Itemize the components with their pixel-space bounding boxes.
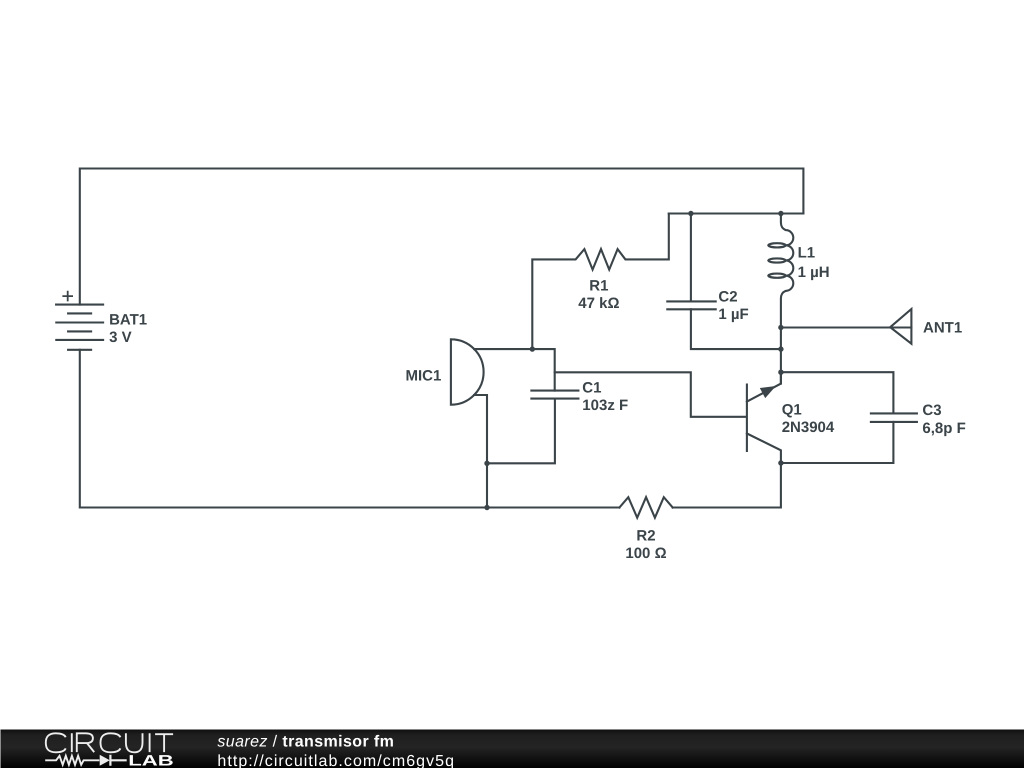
wire bottom rail right of R2 up to collector node (673, 463, 781, 508)
wire top rail from battery + to upper right corner (80, 169, 804, 305)
wire horizontal net at y213 (R1/C2/L1 top node) (669, 212, 804, 214)
svg-text:C2: C2 (718, 289, 737, 306)
resistor R1 (532, 214, 669, 350)
svg-text:2N3904: 2N3904 (782, 419, 835, 436)
node collector / C3 bottom (778, 460, 783, 465)
svg-text:C1: C1 (582, 380, 601, 397)
svg-text:LAB: LAB (128, 753, 174, 768)
svg-text:C3: C3 (922, 402, 941, 419)
node C2 top (688, 211, 693, 216)
node mic bottom / C1 (484, 461, 489, 466)
svg-text:100 Ω: 100 Ω (625, 545, 666, 562)
svg-text:http://circuitlab.com/cm6gv5q: http://circuitlab.com/cm6gv5q (217, 753, 455, 768)
node bottom rail junction (484, 505, 489, 510)
inductor L1 (768, 214, 793, 328)
node C2 bottom (778, 346, 783, 351)
svg-text:ANT1: ANT1 (923, 320, 962, 337)
svg-text:1 µH: 1 µH (798, 264, 830, 281)
svg-text:BAT1: BAT1 (109, 311, 147, 328)
label BAT1 value (109, 311, 147, 346)
footer author / title (217, 734, 394, 751)
svg-text:R1: R1 (589, 278, 608, 295)
svg-text:103z F: 103z F (582, 397, 628, 414)
logo LAB text (128, 753, 174, 768)
label C3 value (922, 402, 965, 437)
label R1 value (578, 278, 619, 312)
label MIC1 (405, 368, 441, 385)
label R2 value (625, 528, 666, 562)
svg-text:MIC1: MIC1 (405, 368, 441, 385)
footer url (217, 753, 455, 768)
node antenna tap (778, 325, 783, 330)
logo resistor-diode squiggle (45, 755, 127, 766)
svg-text:1 µF: 1 µF (718, 306, 748, 323)
wire antenna feed (781, 326, 912, 328)
node mic top / R1 (530, 346, 535, 351)
capacitor C3 (781, 372, 917, 463)
wire L1 bottom through ANT/C2/emitter nodes (780, 328, 782, 384)
node emitter / C3 top (778, 370, 783, 375)
wire mic node down to bottom rail (486, 463, 488, 507)
capacitor C2 (667, 214, 781, 350)
capacitor C1 (487, 391, 578, 464)
wire base net from C1 to Q1 (555, 372, 746, 417)
node L1 top (778, 211, 783, 216)
label C2 value (718, 289, 748, 323)
label L1 value (798, 245, 830, 282)
resistor R2 (619, 497, 672, 518)
microphone MIC1 (451, 339, 555, 463)
svg-text:Q1: Q1 (782, 402, 802, 419)
label C1 value (582, 380, 628, 414)
svg-text:L1: L1 (798, 245, 816, 262)
svg-text:6,8p F: 6,8p F (922, 420, 965, 437)
svg-text:suarez / transmisor fm: suarez / transmisor fm (217, 734, 394, 751)
battery BAT1 (56, 291, 103, 350)
logo CIRCUIT wordmark (46, 733, 173, 752)
svg-text:3 V: 3 V (109, 329, 132, 346)
svg-text:47 kΩ: 47 kΩ (578, 295, 619, 312)
wire battery negative down to bottom rail (80, 350, 620, 508)
antenna ANT1 (890, 309, 911, 344)
label Q1 value (782, 402, 835, 436)
svg-text:R2: R2 (636, 528, 655, 545)
footer bar (0, 730, 1024, 768)
transistor Q1 (747, 372, 781, 463)
label ANT1 (923, 320, 962, 337)
